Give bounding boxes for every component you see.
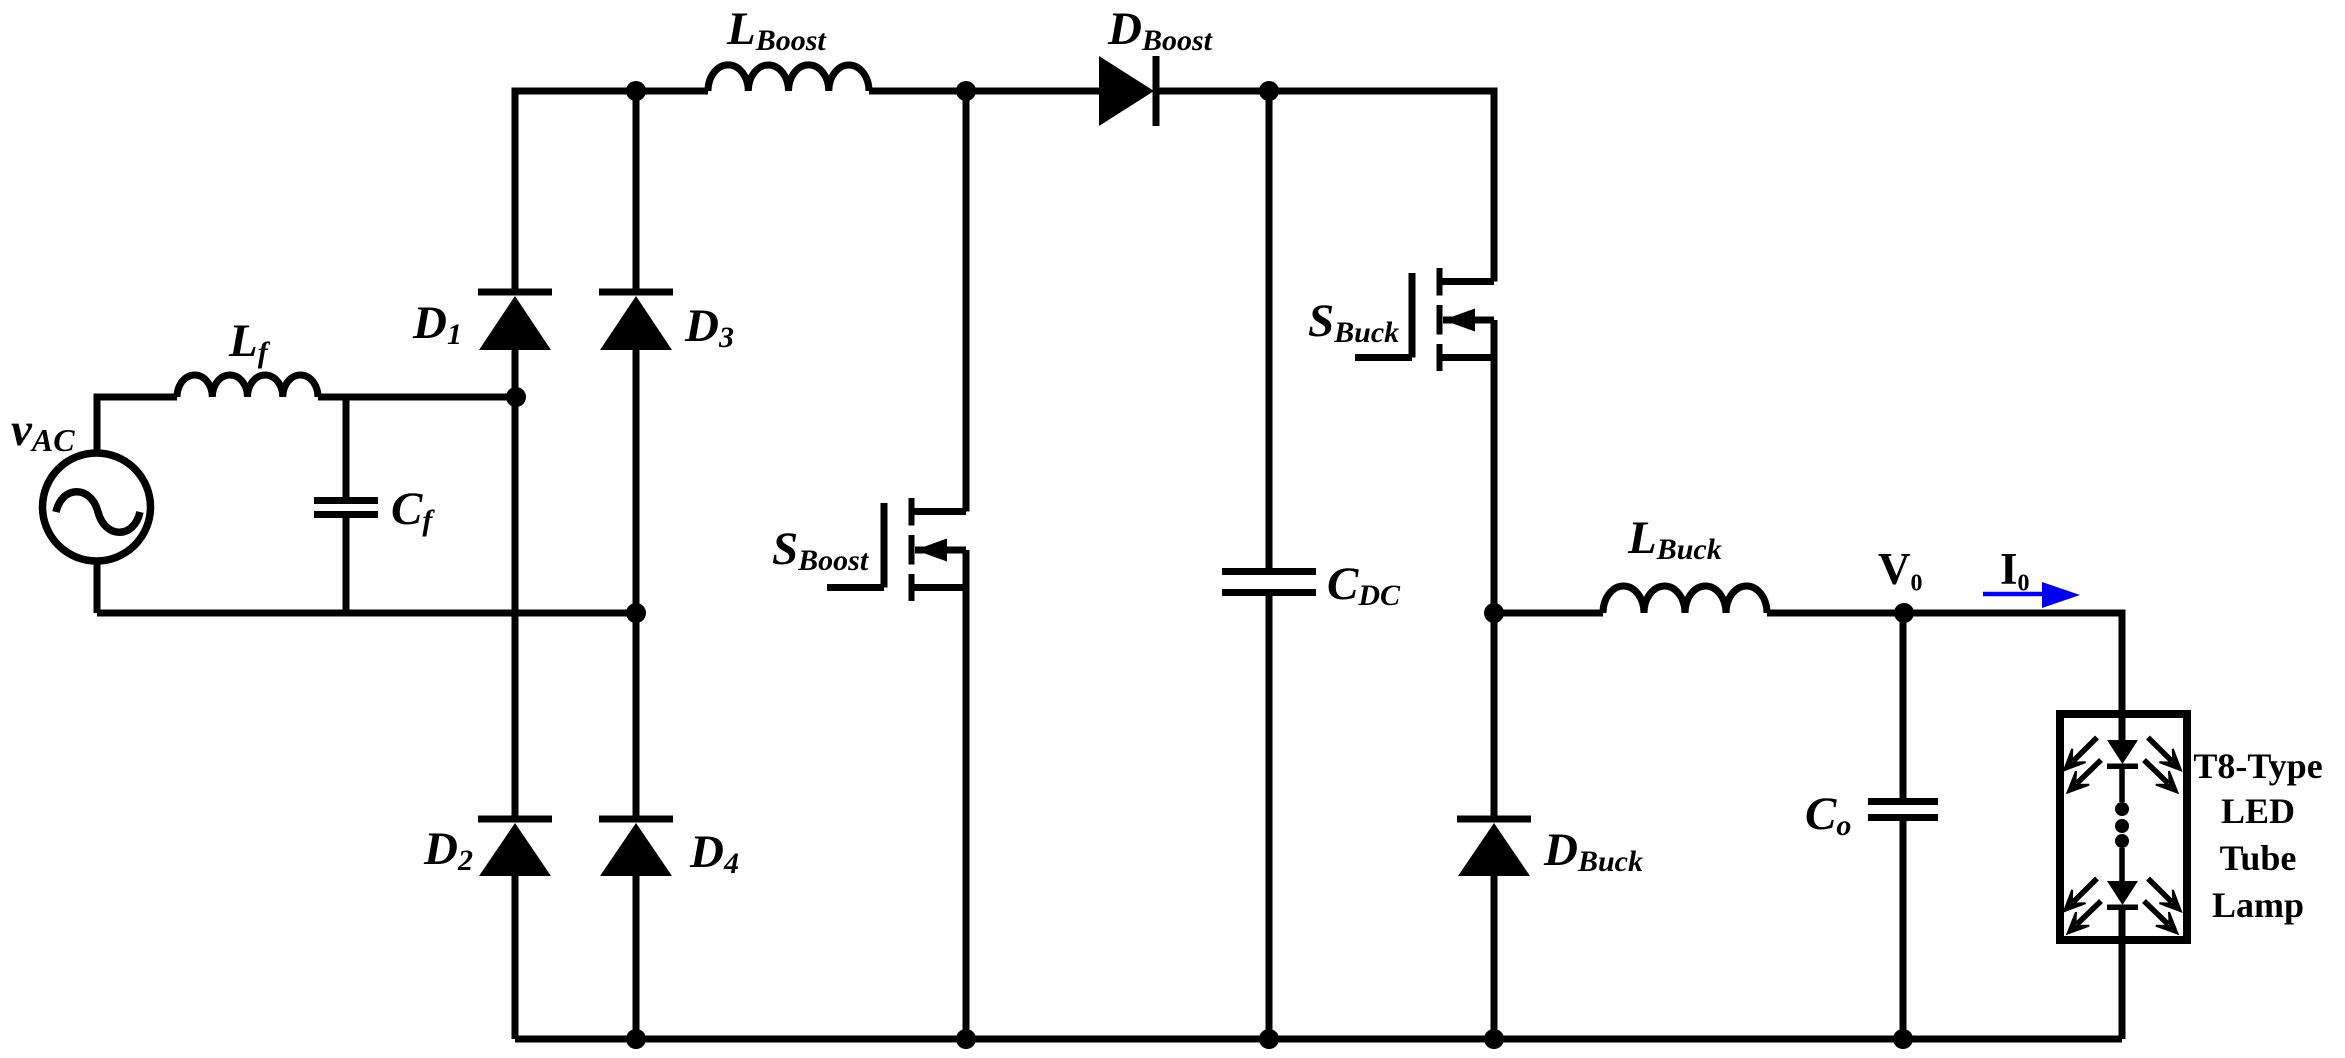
wire right bridge leg bottom xyxy=(633,876,640,1039)
svg-text:Lamp: Lamp xyxy=(2212,885,2304,925)
capacitor Cf plates xyxy=(314,501,378,515)
diode D2 xyxy=(479,823,551,876)
wire left bridge leg top xyxy=(515,91,708,292)
inductor LBoost xyxy=(708,65,869,91)
junction top rail at SBoost drain xyxy=(956,81,976,101)
capacitor Cf top lead xyxy=(343,397,350,497)
LED1 light arrow lower-right xyxy=(2144,760,2168,783)
diode D3 xyxy=(600,296,672,350)
junction buck switch node xyxy=(1484,603,1504,623)
wire right bridge leg top xyxy=(633,91,640,292)
MOSFET SBuck gate xyxy=(1355,273,1412,358)
node Vo junction xyxy=(1894,603,1914,623)
wire left bridge leg bottom xyxy=(512,876,519,1039)
wire LED to bottom rail xyxy=(2119,907,2126,1039)
MOSFET SBuck body arrow line xyxy=(1443,317,1494,324)
LED1 light arrow lower-left xyxy=(2077,760,2101,783)
MOSFET SBuck source lead xyxy=(1491,320,1498,613)
diode DBuck xyxy=(1458,823,1530,876)
junction bottom rail at SBoost source xyxy=(956,1029,976,1049)
junction bottom rail at D4 leg xyxy=(626,1029,646,1049)
diode DBoost xyxy=(1099,56,1154,126)
LED lamp ellipsis dots xyxy=(2115,802,2129,816)
wire right bridge leg middle xyxy=(633,350,640,819)
capacitor Cf bottom lead xyxy=(343,518,350,613)
LED lamp diode 1 xyxy=(2107,740,2138,764)
junction bottom rail at DBuck leg xyxy=(1484,1029,1504,1049)
svg-text:T8-Type: T8-Type xyxy=(2193,746,2322,786)
junction bottom rail at CDC leg xyxy=(1259,1029,1279,1049)
wire LED internal upper xyxy=(2119,766,2125,802)
inductor Lf xyxy=(177,375,318,397)
diode D1 xyxy=(479,296,551,350)
inductor LBuck xyxy=(1603,586,1767,613)
junction AC return at D3-D4 leg xyxy=(626,603,646,623)
wire AC bottom to D3-D4 node xyxy=(97,610,636,617)
svg-text:Tube: Tube xyxy=(2220,838,2297,878)
LED lamp box xyxy=(2060,714,2187,940)
wire LED internal lower xyxy=(2119,848,2125,881)
wire Lf to bridge node xyxy=(318,394,516,401)
capacitor Co bottom lead xyxy=(1900,821,1907,1039)
MOSFET SBoost arrowhead xyxy=(915,539,947,562)
MOSFET SBuck channel dashes xyxy=(1437,268,1443,371)
LED2 light arrow lower-left xyxy=(2077,901,2101,924)
bottom rail xyxy=(515,1036,2122,1043)
wire AC top lead xyxy=(97,397,177,453)
junction bottom rail at Co leg xyxy=(1893,1029,1913,1049)
MOSFET SBoost gate xyxy=(827,503,884,588)
wire LBoost to DBoost xyxy=(869,88,1099,95)
MOSFET SBoost drain bar xyxy=(912,508,967,515)
LED2 light arrow upper-right xyxy=(2148,879,2172,903)
LED1 light arrow upper-right xyxy=(2148,738,2172,762)
MOSFET SBuck drain bar xyxy=(1440,278,1495,285)
capacitor CDC bottom lead xyxy=(1266,596,1273,1039)
output current arrow Io xyxy=(1983,582,2080,608)
diode D4 xyxy=(600,823,672,876)
AC source vAC xyxy=(43,453,151,561)
wire AC bottom lead xyxy=(94,561,101,613)
wire DBoost to SBuck drain xyxy=(1159,91,1494,282)
MOSFET SBoost drain lead xyxy=(963,91,970,512)
LED2 light arrow upper-left xyxy=(2073,879,2097,903)
wire LBuck to lamp xyxy=(1767,613,2122,740)
junction top rail at CDC leg xyxy=(1259,81,1279,101)
svg-text:LED: LED xyxy=(2221,791,2295,831)
LED1 light arrow upper-left xyxy=(2073,738,2097,762)
LED lamp diode 2 xyxy=(2107,881,2138,905)
junction top rail at D3 leg xyxy=(626,81,646,101)
MOSFET SBoost channel dashes xyxy=(909,498,915,601)
junction AC input at D1-D2 leg xyxy=(506,387,526,407)
wire buck node to LBuck xyxy=(1494,610,1603,617)
diode DBuck bottom lead xyxy=(1491,876,1498,1039)
diode DBuck top lead xyxy=(1491,613,1498,819)
MOSFET SBoost source lead xyxy=(963,550,970,1039)
capacitor CDC plates xyxy=(1222,572,1316,593)
LED2 light arrow lower-right xyxy=(2144,901,2168,924)
MOSFET SBoost body arrow line xyxy=(915,547,966,554)
capacitor Co top lead xyxy=(1900,613,1907,798)
MOSFET SBoost source bar xyxy=(912,584,967,591)
MOSFET SBuck arrowhead xyxy=(1443,309,1475,332)
wire left bridge leg middle xyxy=(512,350,519,819)
capacitor CDC top lead xyxy=(1266,91,1273,568)
MOSFET SBuck source bar xyxy=(1440,354,1495,361)
capacitor Co plates xyxy=(1868,802,1938,818)
